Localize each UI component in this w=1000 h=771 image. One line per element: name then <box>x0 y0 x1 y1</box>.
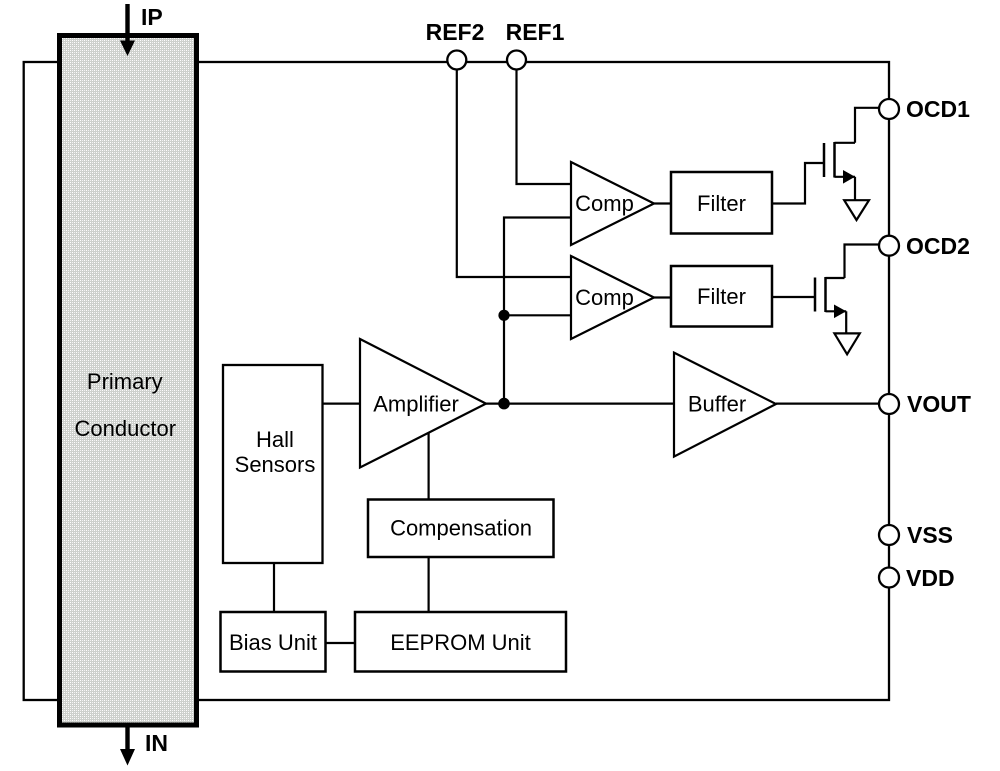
wire REF1 vertical to Comp1 upper input <box>517 62 572 184</box>
ground below Q2 <box>834 333 859 354</box>
pin VDD <box>879 568 899 588</box>
wire amplifier output node up to Comp1 lower input <box>504 218 571 404</box>
filter box F1 <box>671 172 772 234</box>
svg-text:IP: IP <box>141 4 163 30</box>
IN arrow <box>120 727 135 766</box>
svg-text:Primary: Primary <box>87 369 163 394</box>
wire Hall to Bias Unit <box>273 563 275 612</box>
op-amp Amplifier <box>360 339 486 468</box>
transistor Q2 <box>815 277 846 318</box>
wire Amplifier to Compensation <box>428 433 430 500</box>
svg-text:Comp: Comp <box>575 191 634 216</box>
bias unit box <box>221 612 326 672</box>
wire Amplifier to Buffer <box>486 403 674 405</box>
pin REF2 <box>447 51 466 70</box>
wire Filter2 to Q2 gate <box>772 296 815 298</box>
svg-text:Comp: Comp <box>575 285 634 310</box>
pin REF1 <box>507 51 526 70</box>
svg-text:Sensors: Sensors <box>235 452 316 477</box>
filter box F2 <box>671 266 772 327</box>
wire Compensation to EEPROM <box>428 557 430 612</box>
svg-text:REF1: REF1 <box>506 19 565 45</box>
wire Bias Unit to EEPROM <box>326 642 356 644</box>
svg-text:VSS: VSS <box>907 522 953 548</box>
pin OCD1 <box>879 99 899 119</box>
svg-text:VOUT: VOUT <box>907 391 971 417</box>
compensation box <box>368 500 554 558</box>
pin VSS <box>879 525 899 545</box>
svg-text:IN: IN <box>145 730 168 756</box>
svg-text:Hall: Hall <box>256 427 294 452</box>
wire node B to Comp2 lower input <box>504 314 571 316</box>
hall sensors box <box>223 365 323 563</box>
chip outline rectangle <box>24 62 889 700</box>
node B junction dot <box>498 310 509 321</box>
svg-text:Buffer: Buffer <box>688 392 746 417</box>
IP arrow <box>120 4 135 56</box>
eeprom unit box <box>355 612 566 672</box>
svg-text:EEPROM Unit: EEPROM Unit <box>390 630 531 655</box>
wire REF2 vertical to Comp2 upper input <box>457 62 571 277</box>
wire Q2 drain to OCD2 <box>845 245 880 279</box>
wire Q1 source to ground <box>854 177 856 200</box>
wire Comp2 to Filter2 <box>654 296 671 298</box>
ground below Q1 <box>844 200 869 220</box>
pin OCD2 <box>879 236 899 256</box>
op-amp Comp1 <box>571 162 654 245</box>
svg-text:Conductor: Conductor <box>75 416 177 441</box>
wire Q1 drain to OCD1 <box>855 108 880 143</box>
svg-text:Bias Unit: Bias Unit <box>229 630 317 655</box>
transistor Q1 <box>824 142 855 184</box>
svg-text:Compensation: Compensation <box>390 516 532 541</box>
op-amp Buffer <box>674 353 776 457</box>
pin VOUT <box>879 394 899 414</box>
svg-text:VDD: VDD <box>906 565 955 591</box>
svg-text:OCD2: OCD2 <box>906 233 970 259</box>
svg-text:Filter: Filter <box>697 191 746 216</box>
wire Hall to Amplifier <box>323 403 361 405</box>
wire Q2 source to ground <box>845 311 847 333</box>
svg-text:Amplifier: Amplifier <box>373 392 459 417</box>
svg-text:Filter: Filter <box>697 284 746 309</box>
primary conductor <box>60 36 197 726</box>
op-amp Comp2 <box>571 256 654 339</box>
svg-text:OCD1: OCD1 <box>906 96 970 122</box>
wire Comp1 to Filter1 <box>654 202 671 204</box>
node A junction dot (amplifier output) <box>498 398 510 410</box>
wire Filter1 to Q1 gate <box>772 163 824 204</box>
wire Buffer to VOUT <box>776 403 879 405</box>
svg-text:REF2: REF2 <box>426 19 485 45</box>
